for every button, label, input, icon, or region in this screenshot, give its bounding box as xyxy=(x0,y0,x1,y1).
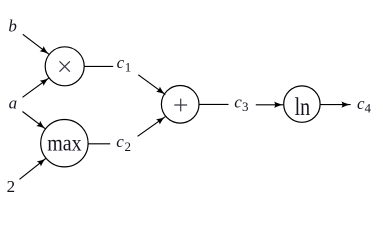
arrow ln to c4 xyxy=(320,104,350,106)
node max xyxy=(41,120,88,167)
wire plus to c3 xyxy=(199,103,228,105)
arrow a to max node xyxy=(23,112,46,129)
svg-text:ln: ln xyxy=(295,93,311,121)
label c3 xyxy=(234,92,248,114)
svg-text:1: 1 xyxy=(125,60,132,75)
arrow c3 to ln node xyxy=(256,104,283,106)
svg-text:a: a xyxy=(9,94,18,113)
svg-text:3: 3 xyxy=(242,99,249,114)
svg-text:max: max xyxy=(47,130,81,156)
arrow c2 to plus node xyxy=(138,117,166,137)
node ln xyxy=(284,86,320,122)
label c1 xyxy=(117,53,132,75)
svg-text:2: 2 xyxy=(125,139,132,154)
arrow a to times node xyxy=(23,78,50,97)
wire times to c1 xyxy=(84,65,113,67)
label c4 xyxy=(357,94,372,116)
arrow c1 to plus node xyxy=(138,75,165,95)
arrow b to times node xyxy=(23,34,49,54)
svg-text:b: b xyxy=(8,17,17,36)
node plus xyxy=(161,86,199,124)
svg-text:4: 4 xyxy=(365,101,372,116)
svg-text:c: c xyxy=(116,132,124,151)
arrow 2 to max node xyxy=(20,158,47,179)
node times xyxy=(45,47,84,86)
svg-text:c: c xyxy=(117,53,125,72)
label c2 xyxy=(116,132,131,154)
wire max to c2 xyxy=(88,143,110,145)
svg-text:2: 2 xyxy=(7,177,16,196)
